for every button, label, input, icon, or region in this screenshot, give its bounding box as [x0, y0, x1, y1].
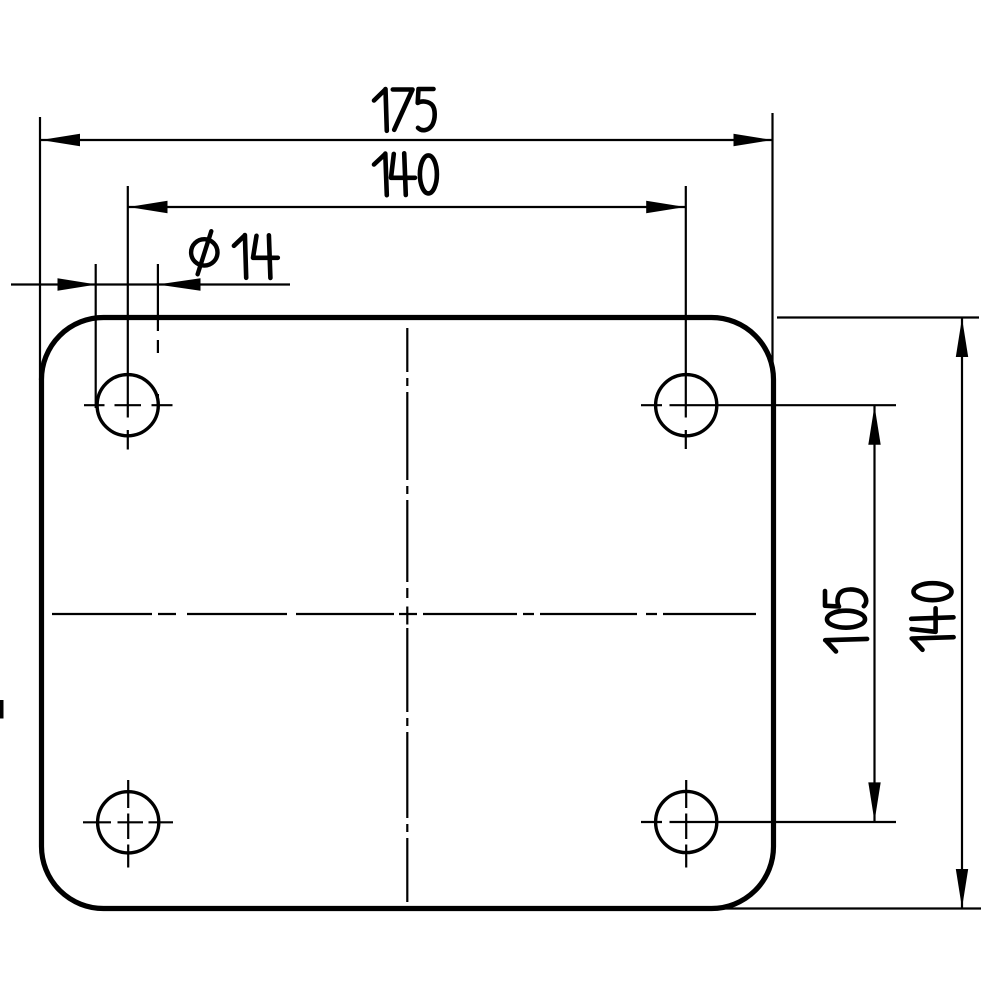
- centerline cross + 105 extension, hole bottom-right: [641, 780, 896, 868]
- dimension line dia 14: [11, 283, 290, 285]
- extension line bottom right (140 right): [711, 907, 981, 909]
- text 140 top: [374, 154, 387, 196]
- dimension line 105: [873, 405, 875, 822]
- arrowhead 105 bottom: [868, 782, 880, 821]
- arrowhead 175 right: [734, 134, 773, 146]
- extension line right (175): [771, 113, 773, 393]
- arrowhead 105 top: [868, 406, 880, 445]
- arrowhead dia14 right: [158, 278, 201, 290]
- text dia 14: [191, 231, 217, 274]
- text 105 (vertical): [825, 589, 867, 651]
- extension line left (175): [39, 117, 41, 380]
- centerline cross hole top-left: [84, 404, 173, 406]
- text 140 (vertical): [911, 583, 953, 650]
- centerline cross hole bottom-left: [83, 780, 173, 868]
- centerline cross + 105 extension, hole top-right: [641, 404, 896, 406]
- extension line hole left edge (dia 14): [95, 264, 97, 408]
- dimension line 140 right: [961, 318, 963, 909]
- plate horizontal centerline: [52, 613, 756, 615]
- extension line left (140 top) + hole centerline: [127, 186, 129, 450]
- dimension line 140 top: [128, 206, 686, 208]
- hole bottom-right: [656, 791, 717, 852]
- arrowhead 175 left: [41, 134, 80, 146]
- plate vertical centerline: [406, 328, 408, 902]
- arrowhead 140 right top: [956, 318, 968, 357]
- extension line hole right edge (dia 14): [157, 264, 159, 409]
- arrowhead 140 right bottom: [956, 869, 968, 908]
- dimension line 175: [40, 139, 773, 141]
- arrowhead dia14 left: [58, 278, 97, 290]
- extension line top right (140 right): [777, 316, 979, 318]
- hole top-left: [97, 375, 158, 436]
- border fragment left edge: [0, 700, 4, 719]
- hole bottom-left: [98, 792, 159, 853]
- plate outline: [42, 318, 774, 909]
- arrowhead 140 top left: [129, 201, 168, 213]
- arrowhead 140 top right: [646, 201, 685, 213]
- hole top-right: [656, 375, 717, 436]
- text 175: [374, 89, 387, 131]
- extension line right (140 top) + hole centerline: [685, 186, 687, 449]
